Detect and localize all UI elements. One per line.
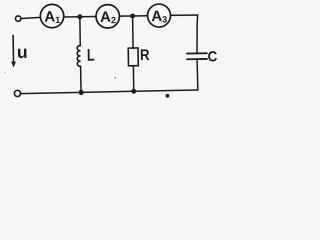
ammeter A1 <box>40 4 64 28</box>
wire bottom rail: node 4 to node 3 <box>81 91 134 92</box>
wire node 1 to ammeter A2 <box>80 16 96 18</box>
wire inductor to node 3 <box>80 66 82 92</box>
voltage arrow u <box>11 35 28 67</box>
wire node 2 down to resistor <box>132 16 135 48</box>
wire bottom rail: node 3 to bottom terminal <box>21 92 81 93</box>
stray ink dot (scan artifact) <box>165 94 169 98</box>
node 2 (top junction of R branch) <box>130 13 135 18</box>
wire node 2 to ammeter A3 <box>133 15 148 17</box>
terminal (bottom input) <box>14 90 20 96</box>
capacitor C <box>187 49 218 65</box>
wire resistor to node 4 <box>132 66 134 92</box>
wire A3 to top-right corner and down to capacitor <box>171 15 199 53</box>
wire A1 to node 1 <box>64 16 80 18</box>
svg-text:C: C <box>207 49 218 65</box>
wire bottom rail: corner to node 4 <box>134 90 198 91</box>
resistor R <box>128 47 149 66</box>
wire capacitor to bottom-right corner <box>196 60 199 91</box>
wire terminal to ammeter A1 <box>21 17 40 18</box>
svg-text:L: L <box>87 46 95 65</box>
inductor L <box>77 45 95 66</box>
node 4 (bottom junction of R branch) <box>131 89 136 94</box>
svg-text:u: u <box>17 42 28 62</box>
terminal (top input) <box>15 16 20 21</box>
wire A2 to node 2 <box>119 15 132 17</box>
ammeter A3 <box>147 4 170 27</box>
node 1 (top junction of L branch) <box>77 14 82 19</box>
node 3 (bottom junction of L branch) <box>78 90 83 95</box>
svg-text:R: R <box>140 47 150 64</box>
ammeter A2 <box>96 4 120 28</box>
wire node 1 down to inductor <box>79 17 81 46</box>
